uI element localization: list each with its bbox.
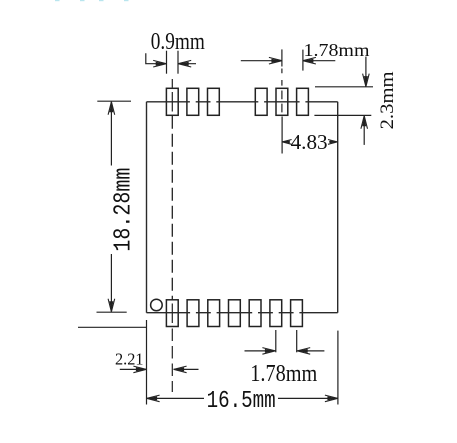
dim 0.9mm: left extension tick [166, 51, 168, 74]
dim 1.78mm bottom: left arrow shaft [245, 350, 276, 352]
top pad 6 [297, 88, 309, 115]
dim 4.83: right arrow stub [329, 141, 337, 143]
dim 18.28mm: dimension line upper segment [110, 102, 112, 166]
dim 2.21: right arrow [174, 366, 187, 373]
centerline B (x=281.9) upper solid extension [281, 49, 283, 66]
dim 4.83: right arrow [328, 140, 337, 145]
dim 0.9mm: right arrow [178, 60, 191, 67]
package outline: right edge [337, 102, 339, 313]
dim 0.9mm: right extension tick [177, 51, 179, 74]
dim 1.78mm bottom: left extension line [275, 330, 277, 352]
dim 1.78mm bottom: right arrow [297, 348, 310, 355]
dim 2.21: left arrow shaft [120, 368, 147, 370]
stray cyan marks at top edge [55, 0, 129, 1]
dim 1.78mm bottom: right arrow shaft [297, 350, 324, 352]
dim 2.3mm: lower arrow shaft [363, 116, 365, 145]
dim 16.5mm: right extension line [337, 331, 339, 405]
dim 18.28mm: bottom arrow [108, 299, 115, 312]
dim 1.78mm top: right extension line [302, 50, 304, 71]
centerline A inside top pad 1 [171, 92, 173, 112]
dim 16.5mm: left arrow [147, 395, 160, 402]
svg-text:2.21: 2.21 [115, 349, 144, 368]
centerline B dashes above pad [281, 69, 283, 86]
dim 18.28mm: lower extension line [97, 311, 127, 313]
dim 18.28mm: dimension line lower segment [110, 254, 112, 312]
dim 1.78mm bottom: right extension line [296, 330, 298, 352]
package outline: top edge [147, 101, 338, 103]
dim 16.5mm: left dimension line [147, 397, 204, 399]
package outline: left edge [146, 102, 148, 313]
centerline B dashes inside top pad 5 [281, 91, 283, 113]
centerline A inside bottom pad 1 [171, 304, 173, 324]
dim 2.3mm: upper arrow [363, 74, 370, 87]
dim 4.83: left arrow stub [282, 141, 289, 143]
dim 16.5mm: right arrow [325, 395, 338, 402]
centerline A through package interior (dashed) [171, 116, 173, 300]
svg-text:4.83: 4.83 [291, 130, 328, 154]
dim 1.78mm bottom: left arrow [262, 348, 275, 355]
dim 4.83: left arrow [282, 140, 291, 145]
bottom pad 7 [291, 300, 303, 327]
bottom pad 4 [229, 300, 241, 327]
top pad 5 [276, 88, 288, 115]
top pad 4 [255, 88, 267, 115]
svg-text:16.5mm: 16.5mm [207, 388, 276, 415]
stray extension line at pad-bottom level (left) [78, 326, 147, 328]
dim 0.9mm: right arrow shaft [178, 63, 196, 65]
bottom pad 5 [249, 300, 261, 327]
dim 18.28mm: top arrow [108, 102, 115, 115]
dim 0.9mm: left arrow [153, 60, 166, 67]
bottom pad 6 [270, 300, 282, 327]
svg-text:1.78mm: 1.78mm [250, 361, 317, 387]
svg-text:18.28mm: 18.28mm [110, 168, 137, 252]
top pad 1 [166, 88, 178, 115]
dim 16.5mm: left extension line [146, 320, 148, 405]
pin-1 marker circle [151, 299, 163, 311]
bottom pad 2 [187, 300, 199, 327]
package outline: bottom edge [147, 312, 338, 314]
dim 16.5mm: right dimension line [278, 397, 338, 399]
dim 18.28mm: upper extension line [97, 100, 131, 102]
centerline B lower extension to 4.83 dim [281, 117, 283, 154]
dim 2.3mm: upper arrow shaft [365, 57, 367, 87]
dim 2.3mm: lower extension line [314, 114, 371, 116]
top pad 3 [208, 88, 220, 115]
centerline A (x=172.3) above top pad [171, 79, 173, 88]
bottom pad 1 [166, 300, 178, 327]
dim 2.3mm: lower arrow [361, 116, 368, 129]
bottom pad 3 [208, 300, 220, 327]
dim 2.3mm: upper extension line [315, 86, 373, 88]
dim 1.78mm top: left arrow shaft [241, 60, 282, 62]
dim 1.78mm top: right arrow shaft [303, 60, 335, 62]
top pad 2 [187, 88, 199, 115]
dim 1.78mm top: left arrow [269, 57, 282, 64]
centerline A below bottom pad (dashed) [171, 329, 173, 393]
svg-text:1.78mm: 1.78mm [304, 40, 370, 60]
edge line stubs inside top pads [166, 101, 309, 103]
svg-text:2.3mm: 2.3mm [378, 71, 398, 130]
dim 2.21: right arrow shaft [174, 368, 199, 370]
edge line stubs inside bottom pads [166, 312, 303, 314]
dim 0.9mm: left leader (L-shape) [146, 53, 156, 63]
dim 1.78mm top: right arrow [303, 57, 316, 64]
dim 2.21: left arrow [133, 366, 146, 373]
